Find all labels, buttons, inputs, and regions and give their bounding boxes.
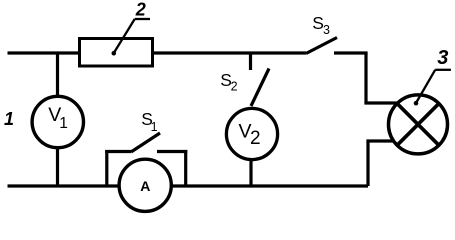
switch S1 left horizontal (105, 150, 131, 153)
wire V2 bottom lead (249, 160, 252, 187)
label S2 (220, 70, 237, 94)
switch S1 left leg (105, 150, 108, 186)
label 3 with leader (414, 47, 451, 105)
switch S1 blade (131, 133, 160, 152)
wire top-left segment (8, 51, 80, 54)
wire bottom-right segment (171, 184, 368, 187)
wire lamp top stub (364, 101, 398, 104)
svg-text:1: 1 (151, 120, 158, 134)
switch S1 right horizontal (157, 150, 187, 153)
voltmeter V1 (32, 96, 83, 147)
svg-text:2: 2 (231, 80, 238, 94)
svg-text:1: 1 (4, 109, 14, 129)
svg-text:2: 2 (250, 128, 261, 149)
label S1 (141, 109, 157, 134)
svg-text:A: A (140, 178, 150, 194)
switch S3 blade (306, 38, 337, 54)
label S3 (312, 13, 330, 37)
label 2 with leader (112, 0, 151, 55)
voltmeter V2 (226, 108, 277, 159)
wire right vertical upper (364, 53, 367, 103)
svg-text:1: 1 (59, 115, 68, 132)
svg-text:2: 2 (135, 0, 146, 20)
wire right vertical lower (366, 141, 369, 186)
lamp 3 (389, 95, 448, 154)
switch S2 blade (251, 69, 269, 107)
ammeter A (119, 159, 171, 211)
node S2 stub (249, 53, 252, 70)
wire bottom-left segment (8, 184, 121, 187)
wire V1 bottom lead (56, 148, 59, 187)
wire top-right segment (334, 51, 368, 54)
svg-text:3: 3 (323, 23, 330, 37)
switch S1 right leg (184, 150, 187, 186)
resistor 2 (box) (80, 39, 153, 67)
wire lamp bottom stub (366, 139, 393, 142)
wire V1 top lead (56, 53, 59, 97)
wire top-middle segment (153, 51, 306, 54)
svg-text:3: 3 (437, 47, 448, 69)
